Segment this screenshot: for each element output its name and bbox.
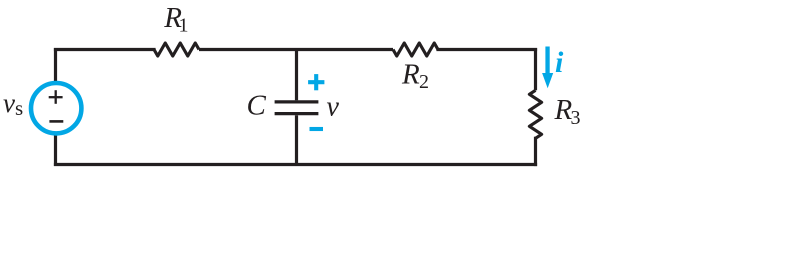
resistor R1 <box>154 43 199 56</box>
wire top-left (corner to R1) <box>56 48 155 51</box>
wire top-middle (R1 to R2, through capacitor node) <box>199 48 393 51</box>
capacitor C bottom plate <box>275 112 319 115</box>
capacitor C top plate <box>275 100 319 103</box>
voltage source vs (circle symbol) <box>31 83 81 133</box>
wire bottom <box>56 163 536 166</box>
capacitor stem lower (bottom plate to bottom wire) <box>295 115 298 164</box>
wire left upper (source to top-left corner) <box>54 48 57 82</box>
svg-text:s: s <box>15 96 23 120</box>
capacitor plus mark (cyan) <box>308 74 324 90</box>
capacitor stem upper (node to top plate) <box>295 48 298 100</box>
svg-text:3: 3 <box>571 107 581 129</box>
wire right upper (corner to R3) <box>534 48 537 90</box>
voltage source plus mark <box>49 90 63 104</box>
current arrow i (cyan) <box>542 47 553 89</box>
resistor R3 <box>529 90 541 138</box>
wire top-right (R2 to top-right corner) <box>438 48 536 51</box>
svg-text:C: C <box>247 90 267 122</box>
svg-text:v: v <box>3 88 15 118</box>
svg-text:i: i <box>555 46 564 79</box>
voltage source minus mark <box>49 120 63 123</box>
svg-text:v: v <box>327 92 340 123</box>
svg-text:2: 2 <box>419 71 429 93</box>
svg-text:1: 1 <box>179 14 189 36</box>
wire left lower (bottom-left corner to source) <box>54 134 57 166</box>
resistor R2 <box>393 43 438 56</box>
svg-text:R: R <box>401 59 420 91</box>
capacitor minus mark (cyan) <box>310 127 324 131</box>
wire right lower (R3 to bottom-right corner) <box>534 138 537 164</box>
